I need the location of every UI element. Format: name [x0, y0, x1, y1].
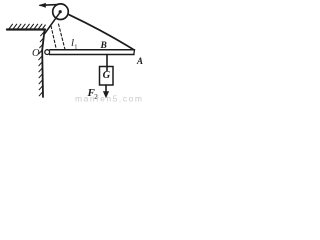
pulley axle dot [59, 10, 62, 13]
svg-text:G: G [103, 70, 111, 81]
svg-text:1: 1 [74, 43, 77, 50]
svg-text:A: A [136, 56, 143, 66]
weight box [100, 67, 114, 86]
beam OA (bottom edge) [50, 54, 135, 56]
force F2 arrow shaft [105, 85, 107, 92]
svg-text:B: B [100, 41, 107, 51]
hanger rod [106, 55, 108, 72]
wall hatching [39, 32, 45, 96]
svg-text:O: O [32, 48, 40, 59]
rope tension arrowhead (left) [39, 3, 46, 8]
beam right end cap [133, 50, 136, 55]
beam OA (top edge) [50, 49, 135, 51]
dashed line D1 [51, 26, 57, 50]
ceiling hatching [9, 24, 45, 29]
rope from pulley to A (hypotenuse) [69, 15, 134, 50]
wall line [42, 30, 44, 98]
pulley U1 [53, 4, 69, 20]
force F2 arrowhead [103, 91, 109, 98]
dashed line D2 [59, 24, 66, 50]
svg-text:manfen5.com: manfen5.com [75, 94, 144, 104]
ceiling support line [7, 28, 45, 30]
rope horizontal segment [40, 4, 58, 7]
pulley support rod [45, 12, 61, 34]
pivot pin O [45, 50, 50, 55]
